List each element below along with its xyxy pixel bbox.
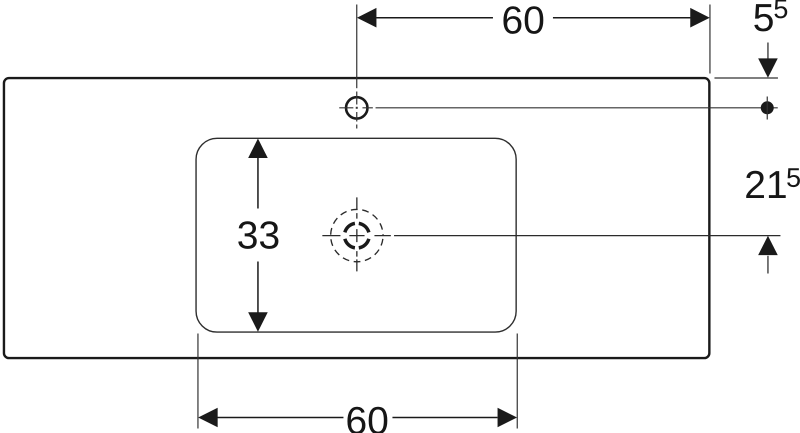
drain inner ring arc top-left [345, 223, 355, 232]
33 dim label [238, 221, 278, 249]
21.5 dim up arrow [758, 236, 778, 255]
top dim arrow right [690, 8, 710, 28]
33 dim line [257, 158, 259, 313]
top dim line [376, 17, 690, 19]
drain inner ring arc bottom-right [359, 239, 369, 248]
label 21 sup 5 [746, 171, 786, 198]
faucet hole circle [346, 97, 367, 118]
label 5 sup 5 [754, 4, 772, 31]
bottom dim arrow right [498, 408, 517, 428]
top dim label 60 [503, 6, 543, 34]
33 dim arrow bottom [248, 312, 268, 332]
drain inner ring arc top-right [359, 223, 369, 232]
drain centerline horizontal dashes [322, 235, 391, 237]
bottom dim line [217, 417, 497, 419]
faucet level line to right [376, 107, 778, 109]
countertop outline [4, 78, 709, 358]
top dim extension line right [709, 5, 711, 74]
bottom dim arrow left [198, 408, 218, 428]
bottom dim extension line right [516, 334, 518, 429]
drain centerline vertical dashes [356, 197, 358, 271]
faucet centerline vertical [356, 92, 358, 129]
33 dim arrow top [248, 139, 268, 159]
top dim extension line left [356, 5, 358, 89]
drain inner ring arc bottom-left [345, 239, 355, 248]
bottom dim extension line left [197, 334, 199, 429]
5.5 dim down arrow [767, 43, 769, 60]
drain level line to right [394, 235, 780, 237]
drain outer dashed circle [331, 209, 383, 261]
top edge extension to right [714, 77, 778, 79]
faucet center dot [356, 107, 358, 109]
drain center cross [349, 229, 364, 242]
basin outline [196, 138, 516, 332]
top dim arrow left [357, 8, 377, 28]
faucet centerline horizontal [339, 107, 373, 109]
faucet level dot [761, 101, 774, 114]
bottom dim label 60 [347, 407, 387, 433]
